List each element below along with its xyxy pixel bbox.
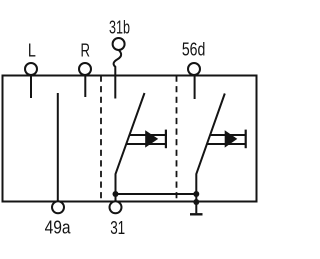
svg-text:49a: 49a <box>45 218 72 238</box>
svg-text:31b: 31b <box>109 18 130 38</box>
svg-text:56d: 56d <box>182 40 206 60</box>
svg-text:L: L <box>28 40 36 60</box>
svg-text:31: 31 <box>110 218 125 238</box>
svg-text:R: R <box>80 40 90 60</box>
